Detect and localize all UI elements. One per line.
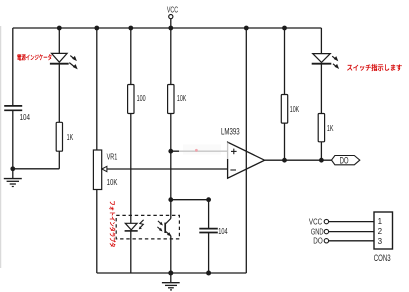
svg-text:10K: 10K (177, 94, 187, 103)
ground bottom (162, 273, 180, 290)
wire output (265, 159, 332, 161)
junction dot bottom rail Q1 (168, 271, 173, 276)
svg-text:VCC: VCC (309, 218, 322, 227)
resistor R5 1K (318, 114, 334, 142)
svg-text:10K: 10K (107, 178, 118, 187)
connector CON3 (309, 212, 393, 263)
wire noninverting input (171, 150, 228, 152)
resistor R1 1K (56, 122, 73, 151)
svg-text:1K: 1K (67, 133, 74, 142)
svg-text:スイッチ指示します: スイッチ指示します (347, 63, 403, 72)
svg-text:10K: 10K (290, 105, 300, 114)
wire Q1 emitter down (170, 236, 172, 273)
wire R2 to opto LED (130, 114, 132, 224)
junction dot C2 top (206, 197, 211, 202)
svg-text:DO: DO (340, 155, 349, 165)
junction dot rail B (57, 26, 62, 31)
wire opto LED bottom (130, 231, 132, 273)
wire C2 bottom (208, 233, 210, 273)
capacitor C1 104 (4, 106, 30, 122)
junction dot rail C (94, 26, 99, 31)
svg-text:104: 104 (218, 227, 228, 236)
wire R3 top (170, 28, 172, 85)
wire R1 to ground (13, 168, 60, 170)
wire R5 bottom (320, 142, 322, 160)
potentiometer VR1 (93, 150, 118, 190)
svg-text:電源インジケータ: 電源インジケータ (17, 52, 52, 61)
svg-text:3: 3 (378, 237, 383, 246)
wire VR1 bottom (96, 190, 98, 274)
VCC power symbol (167, 5, 178, 28)
ground left (4, 169, 22, 187)
wire D1 to R1 (58, 64, 60, 123)
junction dot rail G (244, 26, 249, 31)
watermark remnant (179, 143, 229, 160)
svg-text:1K: 1K (327, 124, 334, 133)
LED D2 (312, 54, 339, 69)
phototransistor Q1 (157, 219, 171, 237)
left edge artifact line (0, 26, 2, 268)
svg-text:DO: DO (313, 237, 322, 246)
svg-text:1: 1 (378, 217, 383, 226)
wire top rail (13, 27, 322, 29)
wire bottom ground rail (97, 272, 247, 274)
svg-text:VCC: VCC (167, 5, 178, 15)
wire R3 to Q1 (170, 114, 172, 219)
svg-text:LM393: LM393 (221, 127, 240, 137)
wire LED D2 branch top corner (320, 28, 322, 53)
junction dot C2 node (168, 197, 173, 202)
svg-text:フォトインタラプタ: フォトインタラプタ (108, 201, 116, 248)
svg-text:VR1: VR1 (107, 152, 118, 161)
op-amp U1 LM393 (221, 127, 265, 179)
net tag DO (332, 155, 360, 165)
wire left branch lower (12, 110, 14, 169)
resistor R4 10K (281, 95, 299, 124)
junction dot rail H (282, 26, 287, 31)
resistor R2 100 (128, 85, 146, 114)
opto emitter LED D3 (125, 220, 144, 231)
resistor R3 10K (168, 85, 187, 114)
LED D1 (50, 53, 78, 69)
capacitor C2 104 (199, 227, 228, 236)
wire VR1 top (96, 28, 98, 150)
svg-text:104: 104 (20, 113, 31, 122)
junction dot noninverting node (168, 149, 173, 154)
svg-text:GND: GND (311, 228, 324, 237)
dashed box photointerrupter (116, 215, 179, 239)
junction dot ground left (10, 166, 15, 171)
junction dot output R5 (319, 158, 324, 163)
svg-text:CON3: CON3 (374, 253, 391, 263)
wire R1 bottom (58, 151, 60, 169)
wire D2 to R5 (320, 64, 322, 114)
wire LED D1 branch top (58, 28, 60, 53)
wire wiper to inverting input (102, 168, 228, 170)
wire C2 top (208, 200, 210, 229)
wire R4 top (284, 28, 286, 95)
wire R4 to output (284, 123, 286, 160)
wire node to C2 (171, 199, 209, 201)
junction dot output R4 (282, 158, 287, 163)
junction dot rail D (128, 26, 133, 31)
wire R2 top (130, 28, 132, 85)
junction dot rail VCC (168, 26, 173, 31)
junction dot bottom rail C2 (206, 271, 211, 276)
wire U1 power vertical (245, 28, 247, 273)
svg-text:2: 2 (378, 227, 383, 236)
svg-text:100: 100 (137, 94, 146, 103)
wire left branch upper (12, 28, 14, 106)
